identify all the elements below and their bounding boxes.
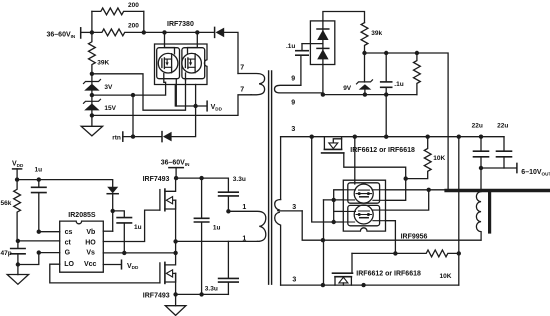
capacitor C3 1u bootstrap xyxy=(117,218,131,253)
wire source lead to VDD terminal xyxy=(175,85,207,107)
wire U3 drain from 3-rail xyxy=(354,137,356,184)
svg-text:.1u: .1u xyxy=(286,43,295,50)
svg-text:9: 9 xyxy=(291,75,295,82)
capacitor C4 1u (half-bridge) xyxy=(194,178,208,294)
junction dot tap node xyxy=(321,238,325,242)
wire U2 lead into package (39K line) xyxy=(185,73,187,80)
svg-text:7: 7 xyxy=(240,87,244,94)
U3 right lead 1 to output rail xyxy=(386,189,447,191)
wire cs line xyxy=(39,231,60,233)
svg-text:3V: 3V xyxy=(104,84,113,91)
wire top rail to diode D1 xyxy=(144,31,215,33)
junction dot C5 bottom winding top xyxy=(226,209,230,213)
svg-text:IRF7493: IRF7493 xyxy=(143,293,170,300)
svg-text:Vb: Vb xyxy=(86,229,95,236)
inductor L1 winding xyxy=(476,192,481,241)
capacitor C7 .1u xyxy=(296,44,308,86)
svg-text:IRF6612 or IRF6618: IRF6612 or IRF6618 xyxy=(356,271,421,278)
terminal bar 36-60VIN xyxy=(80,28,82,38)
junction dot HV rail at C4 xyxy=(199,176,203,180)
terminal bar VDD left xyxy=(13,168,22,170)
junction dot 3V node xyxy=(90,93,94,97)
svg-text:3: 3 xyxy=(292,276,296,283)
wire U2 gate-lead to VDD wire xyxy=(175,79,177,106)
svg-text:10K: 10K xyxy=(440,273,452,280)
diode D2 (cathode left) xyxy=(162,132,172,142)
svg-text:22u: 22u xyxy=(497,123,508,130)
ground symbol bottom-left xyxy=(7,265,28,285)
junction dot D4 on sec rail xyxy=(321,92,325,96)
wire D4 top to 39k xyxy=(323,12,365,23)
svg-text:ct: ct xyxy=(65,239,72,246)
MOSFET Q2 IRF7493 (bottom) xyxy=(160,253,176,295)
svg-text:39K: 39K xyxy=(97,60,109,67)
U3 left bus xyxy=(333,200,335,222)
transformer core xyxy=(269,71,272,284)
resistor R4 56k xyxy=(14,180,21,241)
wire 3V node to left FET source lead xyxy=(92,74,166,96)
junction dot rtn xyxy=(131,134,135,138)
junction dot 3-rail pkg-left column xyxy=(310,135,314,139)
junction dot C4 bottom xyxy=(199,292,203,296)
svg-text:7: 7 xyxy=(240,65,244,72)
junction dot below 39K xyxy=(90,72,94,76)
zener Z1 3V xyxy=(84,74,101,95)
junction dot 15V node xyxy=(90,113,94,117)
wire node A up to resistor R1 row xyxy=(91,11,93,32)
junction dot VDD node xyxy=(15,177,19,181)
junction dot 3-rail return column xyxy=(457,135,461,139)
wire VDD rail to bootstrap diode column xyxy=(17,180,113,187)
junction dot G xyxy=(37,250,41,254)
junction dot output sense xyxy=(479,166,483,170)
junction dot C3 bottom on Vs line xyxy=(122,251,126,255)
svg-text:1u: 1u xyxy=(134,224,142,231)
resistor R6 (bias divider) xyxy=(414,53,421,95)
svg-text:3.3u: 3.3u xyxy=(205,286,218,293)
junction dot cs xyxy=(37,230,41,234)
capacitor C2 47p xyxy=(11,241,25,265)
wire D1 to primary top xyxy=(224,32,238,73)
svg-text:22u: 22u xyxy=(472,123,483,130)
junction dot Q2 source on bottom rail xyxy=(173,292,177,296)
3-rail (secondary top rail) xyxy=(281,136,504,138)
U3 right lead 3 xyxy=(386,190,429,210)
transformer winding 1+1 xyxy=(228,211,265,241)
wire right FET source lead down xyxy=(195,85,197,107)
junction dot 1u cap top xyxy=(37,177,41,181)
wire D2 to VDD node xyxy=(172,106,196,137)
wire VDD down to node xyxy=(16,169,18,180)
bootstrap diode D3 xyxy=(107,187,118,231)
svg-text:10K: 10K xyxy=(433,155,445,162)
U3 left lead 4 xyxy=(312,137,344,222)
node A junction dot xyxy=(90,30,94,34)
svg-text:IRF9956: IRF9956 xyxy=(401,233,428,240)
junction dot 3-rail U3 drain column xyxy=(353,135,357,139)
junction dot U3 left bus top xyxy=(332,198,336,202)
junction dot switch node winding lead xyxy=(173,239,177,243)
dual MOSFET U3 IRF9956 package xyxy=(343,180,385,231)
secondary 3-winding upper lead xyxy=(280,137,282,200)
junction dot ct node xyxy=(16,239,20,243)
terminal bar 36-60VIN (half-bridge) xyxy=(169,167,183,169)
capacitor C5 3.3u (top) xyxy=(219,192,239,211)
capacitor C8 .1u xyxy=(381,53,392,95)
junction dot rtn column on 3V wire xyxy=(131,93,135,97)
svg-text:3.3u: 3.3u xyxy=(233,176,246,183)
transformer primary winding 7+7 xyxy=(238,74,265,95)
junction dot gate node Q3 xyxy=(404,176,408,180)
junction dot 39k bottom xyxy=(362,51,366,55)
svg-text:G: G xyxy=(65,250,71,257)
svg-text:3: 3 xyxy=(292,204,296,211)
svg-text:IRF6612 or IRF6618: IRF6612 or IRF6618 xyxy=(350,147,415,154)
U3 left lead 3 xyxy=(334,210,344,212)
MOSFET Q3 IRF6612 (top sync) xyxy=(322,137,406,179)
capacitor C6 3.3u (bottom) xyxy=(219,241,239,294)
svg-text:IRF7493: IRF7493 xyxy=(143,176,170,183)
junction dot R8 at U3 lead column xyxy=(393,251,397,255)
junction dot C8 on sec rail xyxy=(384,92,388,96)
zener Z3 9V xyxy=(357,53,373,95)
terminal bar output xyxy=(516,163,518,172)
wire Vb pin xyxy=(103,230,112,232)
svg-text:56k: 56k xyxy=(1,200,12,207)
svg-text:15V: 15V xyxy=(104,105,116,112)
wire 47p bottom to G line xyxy=(18,253,39,265)
svg-text:IRF7380: IRF7380 xyxy=(167,21,194,28)
wire Vs line xyxy=(103,252,175,254)
junction dot 47p bottom xyxy=(16,262,20,266)
junction dot R2 right xyxy=(142,30,146,34)
wire G line xyxy=(39,252,60,254)
wire rtn dot up to 3V wire xyxy=(132,95,134,137)
junction dot U3 left bus bottom xyxy=(332,220,336,224)
ground symbol top-left xyxy=(81,115,102,135)
svg-text:200: 200 xyxy=(128,23,139,30)
terminal bar VDD (mid) xyxy=(121,260,123,269)
ground symbol bottom-mid xyxy=(165,294,186,315)
U3 right lead 4 xyxy=(386,221,396,254)
MOSFET Q4 IRF6612 (bottom sync) xyxy=(333,253,353,285)
wire switch node to 1/1 winding bottom xyxy=(176,240,258,242)
wire output to terminal xyxy=(481,167,517,169)
wire input terminal to HV rail xyxy=(175,168,177,179)
wire tap node to U3 lead2 and bottom rail xyxy=(323,200,325,285)
zener Z2 15V xyxy=(84,95,101,115)
secondary winding 3 bump upper xyxy=(275,200,303,211)
U3 left lead 2 xyxy=(324,199,344,201)
center tap wire xyxy=(302,211,481,240)
resistor R5 39k xyxy=(361,23,368,53)
secondary winding 3 bump lower xyxy=(275,212,281,285)
terminal bar rtn xyxy=(122,132,124,141)
junction dot VDD node xyxy=(193,104,197,108)
svg-text:Vs: Vs xyxy=(86,250,95,257)
wire input to node A xyxy=(81,31,92,33)
junction dot 3-rail 10K column xyxy=(426,135,430,139)
junction dot drain lead right FET xyxy=(195,30,199,34)
resistor R2 200 (second) xyxy=(92,29,144,36)
svg-text:1: 1 xyxy=(242,235,246,242)
wire C8 node down to 3-rail xyxy=(385,95,387,137)
svg-text:200: 200 xyxy=(128,2,139,9)
svg-text:1: 1 xyxy=(242,204,246,211)
wire rtn to diode D2 xyxy=(123,136,162,138)
bias line to gate drive column xyxy=(365,53,449,191)
junction dot R8 right on return column xyxy=(457,251,461,255)
svg-text:cs: cs xyxy=(65,229,73,236)
bottom rail primary side xyxy=(176,293,229,295)
svg-text:rtn: rtn xyxy=(112,135,121,142)
inductor L1 core bar xyxy=(488,193,491,232)
IC U1 IR2085S body xyxy=(60,221,104,272)
svg-text:3: 3 xyxy=(291,126,295,133)
bottom rail secondary xyxy=(281,284,459,286)
dual MOSFET U2 IRF7380 package xyxy=(155,32,208,84)
MOSFET Q1 IRF7493 (top) xyxy=(160,178,176,253)
junction dot 3-rail C8 column xyxy=(384,135,388,139)
svg-text:IR2085S: IR2085S xyxy=(68,212,96,219)
secondary rail wire xyxy=(323,94,417,96)
junction dot bottom rail at tap column xyxy=(321,283,325,287)
svg-text:HO: HO xyxy=(85,239,96,246)
wire Vcc to VDD terminal xyxy=(103,264,121,266)
wire gate node down into U3 lead xyxy=(386,179,406,201)
wire 39K node to right FET gate (staircase) xyxy=(92,74,186,110)
resistor R7 10K vertical xyxy=(406,137,431,179)
wire joining R1/R2 right ends xyxy=(143,11,145,32)
wire ct node to chip xyxy=(18,240,60,242)
U3 left lead 1 xyxy=(334,190,344,200)
terminal bar VDD (top section) xyxy=(206,101,208,111)
junction dot output rail at U3 lead xyxy=(427,188,431,192)
junction dot Z3 on sec rail xyxy=(363,92,367,96)
diode D1 (cathode left) xyxy=(215,27,225,37)
junction dot drain lead left FET xyxy=(162,30,166,34)
wire Vb node to bootstrap cap xyxy=(113,211,125,218)
svg-text:Vcc: Vcc xyxy=(84,261,97,268)
wire C7 top to diode pair mid xyxy=(302,43,323,45)
return column wire xyxy=(458,137,460,285)
svg-text:1u: 1u xyxy=(213,225,221,232)
svg-text:LO: LO xyxy=(64,261,74,268)
svg-text:39k: 39k xyxy=(371,30,382,37)
resistor R3 39K vertical xyxy=(89,32,96,73)
svg-text:9: 9 xyxy=(291,99,295,106)
junction dot bottom rail extra xyxy=(361,283,365,287)
capacitor C1 1u xyxy=(32,180,46,232)
svg-text:47p: 47p xyxy=(1,250,12,257)
svg-text:1u: 1u xyxy=(35,166,43,173)
junction dot Vs node xyxy=(173,251,177,255)
HV rail wire xyxy=(176,178,228,192)
svg-text:9V: 9V xyxy=(343,85,352,92)
capacitor C10 22u xyxy=(497,137,512,168)
junction dot bias at R6 xyxy=(415,51,419,55)
wire 15V rail to primary bottom xyxy=(92,95,251,116)
resistor R1 200 (top) xyxy=(92,8,144,15)
secondary winding 9+9 xyxy=(275,85,323,93)
junction dot HV rail at drain xyxy=(174,176,178,180)
resistor R8 10K horizontal xyxy=(352,250,459,257)
junction dot 3-rail C9 column xyxy=(479,135,483,139)
wire D4 bottom to sec rail xyxy=(322,65,324,95)
capacitor C9 22u xyxy=(474,137,489,191)
wire LO to bottom FET gate xyxy=(50,264,160,283)
junction dot bias at C8 xyxy=(384,51,388,55)
svg-text:.1u: .1u xyxy=(394,81,403,88)
junction dot Vb node xyxy=(111,209,115,213)
wire HO to top FET gate xyxy=(103,210,160,241)
dual diode D4 package xyxy=(310,21,334,65)
output rail thick xyxy=(446,189,550,192)
